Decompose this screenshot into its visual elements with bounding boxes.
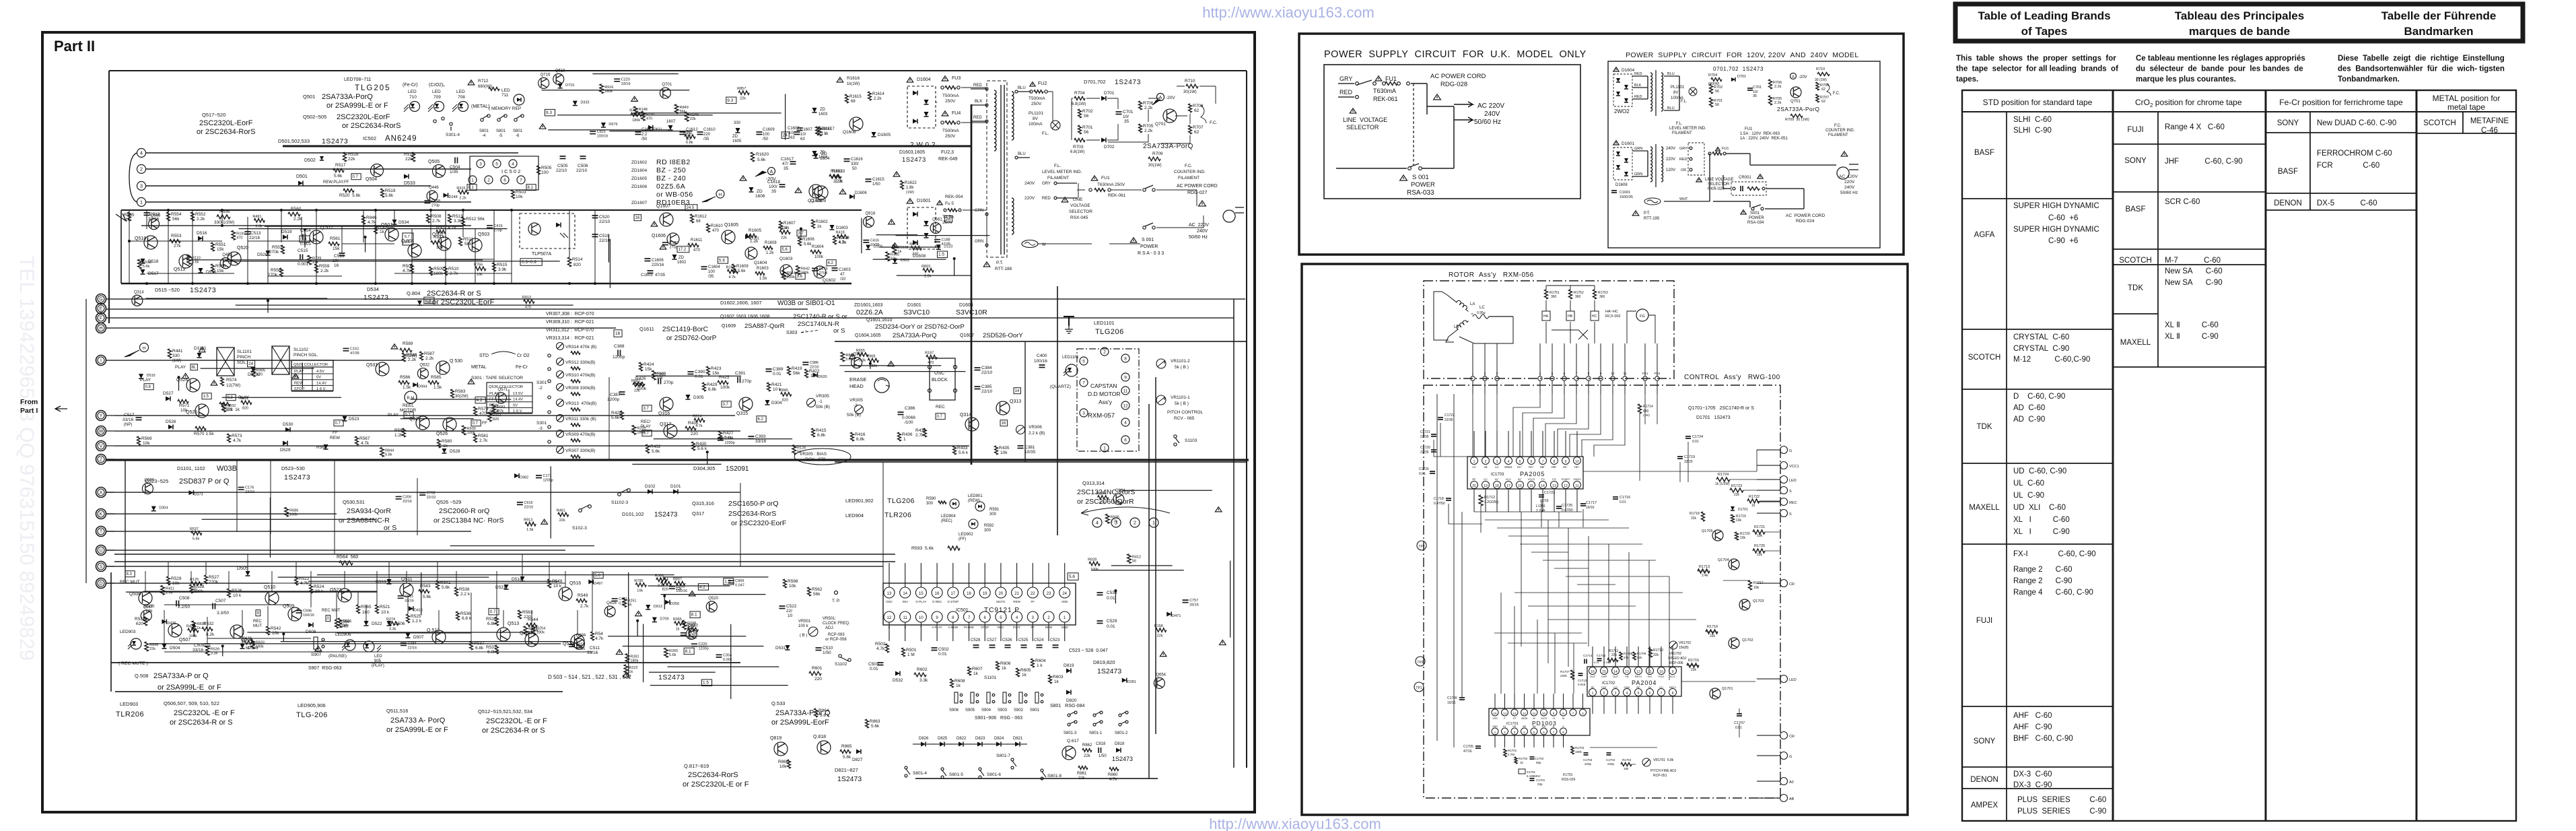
svg-text:22/10: 22/10 [981, 370, 993, 375]
PT RTT-195 [1632, 211, 1639, 215]
svg-text:P.T.: P.T. [1644, 211, 1650, 215]
PLAY 15 boxed [202, 393, 211, 399]
svg-text:C526: C526 [1002, 638, 1012, 642]
svg-text:R864: R864 [819, 708, 829, 713]
svg-text:8.1: 8.1 [528, 186, 534, 190]
svg-text:2.2k: 2.2k [320, 269, 329, 273]
svg-text:C1718: C1718 [1434, 497, 1444, 501]
svg-text:PLUS SERIES C-90: PLUS SERIES C-90 [2017, 807, 2106, 816]
R519 5.6k [381, 189, 384, 197]
R521 10k [376, 605, 379, 613]
svg-text:0.01: 0.01 [1419, 472, 1426, 476]
svg-text:6.8k: 6.8k [385, 453, 392, 457]
svg-text:XL Ⅱ C-90: XL Ⅱ C-90 [2165, 333, 2219, 341]
C1705 [1475, 746, 1481, 748]
svg-text:SCOTCH: SCOTCH [2119, 257, 2152, 265]
selector dashed box [1688, 143, 1704, 175]
svg-text:T500mA: T500mA [942, 94, 959, 98]
svg-text:R512 56k: R512 56k [466, 217, 485, 222]
svg-text:Fe-Cr: Fe-Cr [516, 365, 528, 370]
Q529 collector table [291, 360, 333, 391]
svg-text:47/35: 47/35 [576, 647, 585, 651]
svg-text:3.3/50: 3.3/50 [217, 611, 229, 616]
svg-text:Range 4 C-60, C-90: Range 4 C-60, C-90 [2013, 589, 2093, 597]
arrow 50/60Hz [1454, 117, 1473, 123]
R548 10k [548, 579, 551, 588]
svg-text:TLG206: TLG206 [1095, 328, 1124, 336]
svg-text:1S2091: 1S2091 [726, 465, 749, 473]
svg-text:1200p: 1200p [613, 355, 625, 360]
C510 1-50 [816, 648, 822, 651]
svg-text:R1623: R1623 [831, 170, 843, 174]
svg-text:R524: R524 [314, 585, 324, 589]
svg-text:D501: D501 [296, 174, 308, 179]
svg-text:R510: R510 [448, 267, 459, 271]
svg-text:S1102: S1102 [835, 662, 847, 667]
R1725 [1753, 549, 1765, 553]
STD row BASF [1962, 198, 2007, 199]
rail E [106, 308, 808, 310]
svg-text:9: 9 [936, 616, 938, 620]
svg-text:2: 2 [140, 166, 143, 172]
svg-text:68: 68 [696, 220, 701, 224]
svg-text:SB: SB [1523, 725, 1527, 728]
boxed 0.3-0.9 [520, 259, 542, 266]
svg-text:F.L.: F.L. [1042, 131, 1049, 136]
cluster mid row extra wires [226, 261, 560, 262]
TP1 [1414, 682, 1424, 692]
svg-text:2: 2 [1603, 692, 1605, 696]
svg-text:C1618: C1618 [767, 180, 781, 185]
svg-text:R569: R569 [141, 436, 152, 441]
svg-text:VDD: VDD [1492, 725, 1498, 728]
svg-text:or 2SA999L-E or F: or 2SA999L-E or F [158, 684, 221, 692]
R527 220k [205, 575, 208, 584]
transformer dash frame [987, 81, 1007, 257]
cluster regulator extra [608, 234, 609, 263]
R537 68k a [470, 641, 473, 650]
svg-text:(PAUSE): (PAUSE) [328, 654, 347, 659]
mid row second rail [141, 225, 471, 226]
svg-text:1.8k: 1.8k [906, 186, 914, 190]
STD row AGFA [1962, 329, 2007, 330]
svg-text:4: 4 [1626, 692, 1628, 696]
mid row bottom rail [121, 283, 851, 285]
svg-text:R865: R865 [841, 744, 852, 749]
svg-text:(FF): (FF) [959, 537, 966, 541]
R604 1k [1031, 659, 1035, 667]
svg-text:VR310 470k(B): VR310 470k(B) [565, 373, 595, 378]
svg-text:R243: R243 [726, 266, 735, 270]
svg-text:D333: D333 [580, 101, 589, 105]
svg-text:Q317: Q317 [692, 510, 704, 517]
svg-text:or 2SC2320-EorF: or 2SC2320-EorF [731, 519, 786, 527]
svg-text:Q654: Q654 [1156, 673, 1166, 677]
STD row TDK [1962, 463, 2007, 464]
svg-text:56: 56 [1132, 560, 1136, 564]
svg-text:1.5: 1.5 [703, 681, 709, 686]
svg-text:35: 35 [784, 166, 789, 171]
svg-text:470: 470 [712, 229, 720, 233]
svg-text:1: 1 [1473, 460, 1475, 464]
svg-text:R561: R561 [330, 236, 341, 241]
svg-text:2.2/50: 2.2/50 [178, 605, 190, 609]
svg-text:ZD: ZD [732, 135, 738, 139]
R543 56k [419, 589, 429, 593]
svg-text:2.2 k: 2.2 k [833, 180, 843, 184]
svg-text:22k: 22k [1734, 493, 1740, 497]
svg-text:M-7 C-60: M-7 C-60 [2165, 257, 2221, 265]
svg-text:C176: C176 [245, 486, 254, 490]
svg-text:ZD1607: ZD1607 [631, 201, 648, 205]
Q1602 transistor [814, 266, 826, 278]
svg-text:or 2SC2634-RorS: or 2SC2634-RorS [342, 122, 401, 130]
svg-text:5.6 k: 5.6 k [959, 451, 969, 455]
svg-text:LED905,906: LED905,906 [298, 702, 326, 708]
svg-text:710: 710 [409, 95, 417, 100]
svg-text:LEVEL METER IND.: LEVEL METER IND. [1042, 170, 1082, 174]
svg-text:22/10: 22/10 [427, 496, 436, 500]
terminal I [96, 356, 106, 366]
svg-text:BLU: BLU [1018, 86, 1026, 90]
svg-text:D701: D701 [1737, 75, 1746, 79]
svg-text:1.5k: 1.5k [433, 385, 442, 390]
R1704 [1621, 763, 1632, 766]
vertical x1833 [1233, 299, 1234, 768]
svg-text:DX-3 C-90: DX-3 C-90 [2013, 781, 2052, 789]
svg-text:30(1W): 30(1W) [1148, 164, 1162, 168]
svg-text:1k: 1k [956, 684, 961, 688]
svg-text:BLU: BLU [1667, 72, 1675, 76]
svg-text:( B ): ( B ) [800, 634, 807, 638]
svg-text:16: 16 [635, 216, 640, 220]
svg-text:10/: 10/ [789, 131, 795, 135]
svg-text:REW.PLAY.FF: REW.PLAY.FF [323, 180, 349, 185]
svg-text:R543: R543 [420, 584, 431, 589]
svg-text:R432: R432 [650, 444, 661, 449]
svg-text:4.7M: 4.7M [1508, 753, 1515, 756]
svg-text:D256: D256 [670, 602, 679, 606]
R601 220 [809, 671, 821, 675]
LED group 710 709 708 [410, 102, 420, 112]
C515 cap [300, 255, 303, 261]
svg-text:D819: D819 [1064, 663, 1074, 668]
R708 R707 [1816, 82, 1819, 90]
terminal U [96, 545, 106, 556]
svg-text:-20V: -20V [1166, 96, 1175, 100]
svg-text:R897: R897 [673, 578, 682, 582]
svg-text:REC: REC [1789, 501, 1797, 505]
svg-text:D522: D522 [372, 622, 382, 626]
svg-text:R187: R187 [925, 352, 934, 356]
svg-text:1.5k: 1.5k [166, 591, 173, 595]
R1613 4.3k [833, 236, 837, 244]
bottom switch S801-7 [1011, 758, 1014, 761]
svg-text:11: 11 [903, 616, 908, 620]
R505 100 [537, 166, 541, 174]
D519 diode [283, 235, 287, 240]
R582 1.2k [403, 428, 406, 437]
FU1 fuse 630 [1091, 176, 1098, 180]
svg-text:or 2SC2320L-E or F: or 2SC2320L-E or F [683, 780, 749, 789]
svg-text:marques de bande: marques de bande [2189, 25, 2290, 38]
svg-text:LA: LA [1470, 302, 1475, 306]
svg-text:2SD837 P or Q: 2SD837 P or Q [179, 477, 230, 486]
C1724 [1685, 436, 1691, 438]
svg-text:R574: R574 [226, 378, 237, 383]
svg-text:1 6 V: 1 6 V [316, 387, 326, 391]
boxed 5.6 reg [781, 246, 790, 253]
warn reg1 [651, 222, 658, 226]
svg-text:S801: S801 [513, 129, 523, 133]
svg-text:R502: R502 [875, 642, 886, 646]
svg-text:1k(1W): 1k(1W) [847, 82, 860, 86]
R428 56k [621, 411, 624, 420]
svg-text:PL1101: PL1101 [1671, 86, 1685, 90]
svg-text:R421: R421 [771, 383, 782, 387]
svg-text:RDG-024: RDG-024 [1796, 219, 1815, 224]
svg-text:62: 62 [1821, 88, 1825, 92]
svg-text:D701: D701 [1104, 91, 1115, 96]
R1605 1.2k [746, 234, 757, 237]
svg-text:R552: R552 [195, 212, 206, 217]
svg-text:F.L.: F.L. [1676, 122, 1683, 126]
C1615 1-50 [866, 179, 872, 182]
svg-text:/10: /10 [840, 277, 846, 281]
R1612 68 [691, 214, 694, 223]
svg-text:1602: 1602 [677, 261, 687, 265]
svg-text:GND2: GND2 [1573, 477, 1581, 481]
svg-text:VR309 470k(B): VR309 470k(B) [565, 432, 595, 437]
svg-text:TP3: TP3 [1418, 545, 1424, 549]
D1603 diode [830, 225, 835, 230]
svg-text:1k: 1k [1054, 679, 1059, 684]
cap row above rail [635, 132, 641, 135]
svg-text:(1W): (1W) [1643, 413, 1650, 417]
svg-text:AD C-90: AD C-90 [2013, 415, 2045, 424]
svg-text:CHT: CHT [1601, 686, 1607, 689]
svg-text:180k: 180k [604, 90, 613, 94]
svg-text:2.7k: 2.7k [580, 604, 589, 609]
svg-text:D920: D920 [818, 375, 827, 379]
svg-text:STOP: STOP [294, 387, 305, 391]
control left bus verticals [1437, 394, 1462, 747]
svg-text:5: 5 [495, 162, 498, 166]
svg-text:F: F [1504, 717, 1506, 720]
svg-text:R581: R581 [478, 434, 489, 438]
svg-text:3: 3 [1615, 692, 1617, 696]
svg-text:D715: D715 [565, 84, 574, 88]
svg-text:8: 8 [952, 616, 954, 620]
svg-text:22k: 22k [405, 157, 413, 162]
Part II outer frame [42, 32, 1255, 812]
svg-text:BZ - 240: BZ - 240 [656, 174, 686, 182]
svg-text:R1710: R1710 [1653, 649, 1663, 653]
svg-text:470: 470 [256, 372, 263, 376]
svg-text:UD C-60, C-90: UD C-60, C-90 [2013, 467, 2066, 475]
svg-text:C1714: C1714 [1583, 654, 1593, 657]
svg-text:A: A [1792, 75, 1795, 79]
svg-text:6.2: 6.2 [758, 418, 764, 422]
R587 2.2k [420, 352, 423, 360]
R1717 [1749, 580, 1752, 590]
svg-text:R123: R123 [686, 624, 695, 628]
svg-text:-2: -2 [854, 403, 858, 408]
C1719 [1677, 457, 1683, 459]
svg-text:270p: 270p [664, 380, 674, 385]
svg-text:AC POWER CORD: AC POWER CORD [1430, 73, 1486, 80]
rectifier D1604 [907, 77, 913, 82]
svg-text:(1W): (1W) [906, 191, 914, 195]
FeCr brand divider [2309, 112, 2311, 210]
svg-text:R607: R607 [972, 667, 983, 671]
svg-text:33/16: 33/16 [587, 651, 598, 655]
svg-text:A PLAY: A PLAY [932, 626, 942, 629]
svg-text:16: 16 [1591, 670, 1595, 674]
D530 diode [285, 428, 290, 432]
svg-text:Q416: Q416 [606, 601, 617, 605]
svg-text:SONY: SONY [1974, 737, 1996, 745]
svg-text:C1723: C1723 [1544, 491, 1555, 495]
IC1702 PA2004 [1587, 667, 1681, 696]
D516 diode [198, 236, 203, 241]
svg-text:GRY: GRY [1679, 147, 1687, 151]
boxed 8.1 right [526, 185, 536, 191]
FeCr row SONY [2266, 132, 2416, 133]
svg-text:20: 20 [999, 592, 1004, 596]
terminal W [96, 426, 106, 436]
svg-text:C416: C416 [870, 239, 879, 243]
svg-text:D503: D503 [901, 259, 909, 263]
svg-text:50/60 Hz: 50/60 Hz [1474, 119, 1501, 126]
svg-text:16: 16 [935, 592, 940, 596]
R706 [1769, 79, 1772, 89]
svg-text:C1724: C1724 [1692, 435, 1703, 439]
R1713 [1698, 569, 1710, 573]
svg-text:10 k: 10 k [553, 584, 562, 589]
svg-text:0.0068: 0.0068 [902, 415, 915, 420]
svg-text:1: 1 [1592, 692, 1594, 696]
C1603 47-10 [832, 268, 838, 271]
svg-text:56: 56 [627, 603, 631, 607]
Q515 transistor [571, 634, 584, 648]
svg-text:5k ( B ): 5k ( B ) [1175, 401, 1189, 406]
svg-text:S303: S303 [786, 331, 797, 335]
svg-text:2SD526-OorY: 2SD526-OorY [983, 332, 1023, 339]
svg-text:D821: D821 [1013, 737, 1023, 741]
svg-text:AMPEX: AMPEX [1971, 801, 1998, 809]
svg-text:D676: D676 [608, 123, 617, 127]
svg-text:C390: C390 [695, 370, 705, 374]
svg-text:R536: R536 [460, 611, 471, 616]
svg-text:Q501: Q501 [303, 94, 315, 100]
svg-text:2.2 k (B): 2.2 k (B) [1029, 431, 1045, 436]
svg-text:5: 5 [1533, 731, 1535, 734]
svg-text:R602: R602 [917, 667, 928, 672]
C517 33-16 [136, 418, 142, 420]
S001 switch [1143, 226, 1146, 229]
svg-text:BZ - 250: BZ - 250 [656, 166, 686, 174]
Q509 transistor [288, 607, 302, 621]
svg-text:3: 3 [479, 162, 482, 166]
svg-text:0.8: 0.8 [300, 237, 306, 242]
svg-text:ZD: ZD [757, 189, 763, 194]
svg-text:S801 RSG-084: S801 RSG-084 [1050, 704, 1084, 708]
svg-text:4.7k: 4.7k [368, 220, 376, 225]
rail Y long [114, 415, 735, 416]
svg-text:-5: -5 [499, 134, 503, 138]
svg-text:R125: R125 [190, 578, 199, 582]
svg-text:620: 620 [136, 622, 143, 626]
svg-text:R520 5.6k: R520 5.6k [339, 193, 361, 198]
svg-text:S801-2: S801-2 [1115, 731, 1128, 735]
svg-text:7: 7 [1572, 712, 1574, 715]
svg-text:R554: R554 [171, 212, 182, 217]
svg-text:9.3: 9.3 [727, 98, 733, 103]
svg-text:or WB-056: or WB-056 [656, 191, 693, 199]
svg-text:T: T [100, 530, 103, 535]
svg-text:OUT: OUT [1590, 675, 1596, 678]
svg-text:13.5V: 13.5V [513, 392, 523, 396]
svg-text:220V: 220V [1024, 196, 1035, 201]
R861 22k [1078, 766, 1088, 770]
svg-text:3.3k: 3.3k [454, 219, 462, 224]
Q1702 [1729, 638, 1739, 649]
svg-text:100: 100 [541, 170, 549, 175]
FU3 fuse [942, 76, 948, 81]
svg-text:R756: R756 [474, 263, 483, 267]
svg-text:5: 5 [1638, 692, 1640, 696]
svg-text:820: 820 [242, 407, 248, 411]
svg-text:56p: 56p [1536, 761, 1541, 764]
svg-text:FU1: FU1 [1722, 147, 1729, 151]
svg-text:Q701: Q701 [1790, 100, 1801, 104]
boxed 8.1 left [467, 185, 477, 191]
svg-text:COUNTER IND.: COUNTER IND. [1825, 129, 1855, 133]
R538 22k [455, 587, 458, 596]
svg-text:RSA-034: RSA-034 [1747, 221, 1764, 225]
svg-text:6.8k: 6.8k [817, 433, 826, 438]
C1616 330-50 [844, 159, 850, 162]
svg-text:S907 RSG-063: S907 RSG-063 [308, 666, 342, 671]
cluster erase row extra [845, 371, 966, 372]
svg-text:Q526: Q526 [436, 432, 448, 436]
svg-text:18k: 18k [1624, 767, 1629, 770]
R430 56k [692, 442, 695, 451]
svg-text:5: 5 [1519, 460, 1521, 464]
svg-text:C701: C701 [1753, 86, 1762, 90]
R865 56k [840, 750, 851, 753]
svg-text:330: 330 [912, 252, 918, 256]
svg-text:VR313 470k(B): VR313 470k(B) [565, 401, 596, 406]
column line FeCr-METAL [2416, 90, 2418, 821]
svg-text:C503: C503 [868, 662, 879, 667]
Q526 transistor [443, 418, 456, 431]
R602 33k [914, 673, 926, 677]
svg-text:R: R [1553, 725, 1555, 728]
svg-text:Q526 ~529: Q526 ~529 [436, 499, 461, 505]
VR selector list [557, 343, 564, 350]
cluster labels band wires [450, 545, 594, 546]
svg-text:D504: D504 [170, 646, 180, 651]
svg-text:START: START [1562, 477, 1570, 481]
svg-text:22/10: 22/10 [576, 168, 588, 173]
transformer secondary lower [1650, 147, 1652, 182]
C519 22-10 [592, 234, 598, 237]
svg-text:22k: 22k [1611, 653, 1617, 657]
svg-text:10/35: 10/35 [1024, 450, 1036, 455]
svg-text:LED901,902: LED901,902 [845, 498, 874, 504]
